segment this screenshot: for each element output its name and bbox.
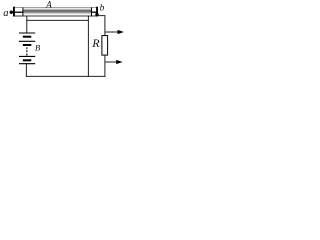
battery bottom long plate <box>19 63 35 65</box>
rod left end cap edge <box>13 7 15 17</box>
battery cell 1 short plate <box>23 36 32 38</box>
output arrow bottom <box>105 61 118 63</box>
parallel wire under rod (horizontal) <box>26 19 88 21</box>
parallel wire under rod (left stub) <box>26 16 28 20</box>
rod axis wire through left cap <box>11 11 23 13</box>
battery top lead <box>26 20 28 33</box>
terminal dot a <box>10 11 13 14</box>
rod axis wire through right cap <box>92 11 98 13</box>
terminal dot b <box>95 13 98 16</box>
rod left partition <box>22 7 24 16</box>
rod top edge <box>14 7 98 9</box>
rod right partition <box>91 7 93 16</box>
wire R bottom to bottom rail <box>104 55 106 77</box>
svg-text:R: R <box>91 36 100 50</box>
svg-text:a: a <box>3 8 8 19</box>
rod right end cap edge <box>96 7 98 17</box>
rod A body (shaded tube middle section) <box>23 8 92 16</box>
resistor R box <box>102 36 108 56</box>
svg-text:A: A <box>45 0 52 10</box>
battery cell 3 short plate <box>23 59 32 61</box>
wire from b to right branch <box>98 16 105 36</box>
right tap wire down to bottom rail <box>87 16 89 77</box>
battery cell 1 long plate <box>19 32 35 34</box>
battery ellipsis dashes <box>26 47 27 49</box>
svg-text:b: b <box>100 4 105 14</box>
svg-text:B: B <box>35 42 40 52</box>
rod bottom edge <box>14 15 98 17</box>
battery cell 2 long plate <box>19 40 35 42</box>
bottom rail wire <box>26 75 106 77</box>
output arrow top <box>105 31 119 33</box>
battery bottom lead <box>25 64 27 77</box>
battery cell 3 long plate <box>19 55 35 57</box>
battery cell 2 short plate <box>23 44 32 46</box>
